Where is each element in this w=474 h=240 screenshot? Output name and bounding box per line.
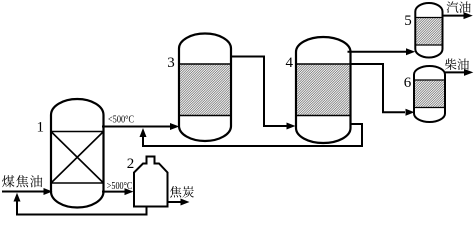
wire: vessel4 overhead to vessel5 [348, 48, 416, 55]
vessel 1 (hydrogenation reactor with X packing) [51, 99, 104, 208]
svg-text:>500°C: >500°C [107, 181, 133, 192]
wire: vessel4 side draw to vessel6 [351, 64, 415, 116]
wire: fractionator overhead to vessel4 [231, 57, 296, 130]
vessel 5 (gasoline stabilizer) [415, 3, 442, 58]
svg-text:6: 6 [404, 75, 412, 91]
svg-text:4: 4 [285, 55, 293, 71]
label 汽油 (gasoline) [447, 1, 471, 12]
wire: coke outlet [168, 199, 190, 206]
wire: gasoline product [443, 12, 473, 19]
svg-text:1: 1 [37, 119, 45, 135]
vessel 2 (coke drum) [134, 157, 168, 207]
svg-text:2: 2 [127, 156, 135, 172]
label 柴油 (diesel) [445, 59, 469, 70]
label 煤焦油 (coal tar) [2, 175, 42, 187]
vessel 6 (diesel stripper) [414, 66, 445, 122]
svg-text:5: 5 [404, 13, 412, 29]
vessel 4 (reactor) [296, 37, 351, 143]
wire: bottoms recycle from coke drum to feed [14, 193, 147, 215]
wire: vessel4 bottoms recycle to fractionator feed junction [140, 124, 363, 146]
vessel 3 (fractionator) [179, 34, 231, 142]
wire: diesel product [445, 69, 473, 76]
svg-text:3: 3 [167, 55, 175, 71]
svg-text:<500°C: <500°C [108, 114, 134, 125]
wire: coal tar feed line [2, 188, 53, 195]
wire: vessel1 bottom to coke drum (>500C) [102, 188, 134, 195]
label 焦炭 (coke) [170, 186, 194, 197]
wire: vessel1 top vapor to fractionator (<500C) [102, 123, 179, 130]
